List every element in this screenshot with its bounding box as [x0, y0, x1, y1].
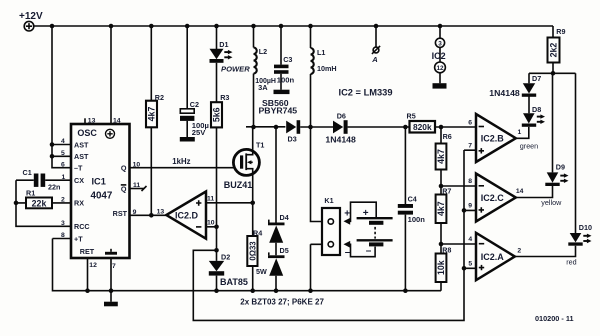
- svg-text:2: 2: [517, 248, 521, 255]
- svg-text:D6: D6: [337, 112, 346, 121]
- svg-text:D1: D1: [219, 40, 228, 49]
- svg-text:RST: RST: [113, 209, 128, 218]
- svg-text:+T: +T: [74, 234, 83, 243]
- svg-text:IC2 = LM339: IC2 = LM339: [339, 87, 393, 97]
- svg-text:yellow: yellow: [541, 198, 562, 207]
- svg-text:3: 3: [61, 220, 65, 227]
- svg-text:Q: Q: [121, 184, 127, 193]
- svg-text:D9: D9: [556, 163, 565, 172]
- svg-text:13: 13: [88, 117, 96, 124]
- svg-text:010200 - 11: 010200 - 11: [535, 314, 574, 323]
- svg-text:POWER: POWER: [221, 64, 250, 73]
- svg-text:R8: R8: [442, 246, 451, 255]
- svg-text:12: 12: [89, 262, 97, 269]
- svg-text:2: 2: [61, 197, 65, 204]
- svg-text:2x BZT03 27; P6KE 27: 2x BZT03 27; P6KE 27: [240, 298, 324, 307]
- svg-text:820k: 820k: [413, 122, 432, 132]
- svg-text:0Ω33: 0Ω33: [249, 241, 258, 261]
- svg-text:4047: 4047: [91, 191, 113, 202]
- svg-text:3: 3: [438, 40, 442, 47]
- svg-text:OSC: OSC: [77, 128, 97, 138]
- svg-text:R5: R5: [407, 111, 416, 120]
- svg-text:2k2: 2k2: [549, 43, 559, 58]
- svg-text:4: 4: [61, 138, 65, 145]
- svg-text:11: 11: [207, 196, 214, 203]
- svg-text:10mH: 10mH: [317, 64, 337, 73]
- svg-text:L1: L1: [317, 48, 325, 57]
- svg-text:C2: C2: [190, 100, 199, 109]
- svg-text:1N4148: 1N4148: [325, 135, 356, 145]
- svg-text:D5: D5: [280, 246, 289, 255]
- svg-text:IC2.A: IC2.A: [481, 252, 505, 262]
- svg-text:red: red: [566, 258, 576, 267]
- svg-text:IC2: IC2: [432, 51, 446, 61]
- svg-text:8: 8: [468, 178, 472, 185]
- svg-text:D3: D3: [288, 135, 297, 144]
- svg-text:Q: Q: [121, 164, 127, 173]
- svg-text:IC2.B: IC2.B: [481, 133, 505, 143]
- svg-text:5k6: 5k6: [212, 107, 222, 122]
- svg-text:IC2.C: IC2.C: [481, 193, 505, 203]
- svg-text:R9: R9: [556, 27, 565, 36]
- svg-text:8: 8: [61, 232, 65, 239]
- svg-text:11: 11: [133, 182, 140, 189]
- svg-text:T1: T1: [256, 141, 264, 150]
- svg-text:IC1: IC1: [92, 177, 106, 187]
- svg-text:RET: RET: [80, 247, 95, 256]
- svg-text:R4: R4: [253, 228, 262, 237]
- svg-text:C4: C4: [408, 195, 417, 204]
- svg-text:5W: 5W: [256, 267, 267, 276]
- svg-text:–: –: [345, 247, 351, 258]
- svg-text:D2: D2: [221, 253, 230, 262]
- svg-text:AST: AST: [74, 140, 89, 149]
- svg-text:14: 14: [113, 117, 121, 124]
- svg-text:AST: AST: [74, 152, 89, 161]
- svg-text:4: 4: [468, 236, 472, 243]
- svg-text:1: 1: [62, 174, 66, 181]
- svg-text:D8: D8: [532, 105, 541, 114]
- svg-text:D7: D7: [532, 74, 541, 83]
- svg-text:R1: R1: [26, 189, 35, 198]
- svg-text:10k: 10k: [436, 260, 446, 275]
- svg-text:9: 9: [133, 209, 137, 216]
- svg-text:100n: 100n: [408, 215, 426, 224]
- svg-text:CX: CX: [74, 176, 84, 185]
- svg-text:7: 7: [112, 263, 116, 270]
- svg-text:R2: R2: [155, 93, 164, 102]
- svg-text:C3: C3: [283, 55, 292, 64]
- svg-text:13: 13: [157, 208, 165, 215]
- svg-text:C1: C1: [23, 168, 32, 177]
- svg-text:K1: K1: [324, 196, 333, 205]
- svg-text:22k: 22k: [32, 198, 47, 208]
- svg-text:4k7: 4k7: [147, 107, 157, 122]
- svg-text:PBYR745: PBYR745: [259, 105, 298, 115]
- svg-text:green: green: [520, 141, 538, 150]
- svg-text:A: A: [371, 55, 377, 64]
- svg-text:7: 7: [468, 143, 472, 150]
- svg-text:1: 1: [518, 129, 522, 136]
- svg-text:5: 5: [468, 261, 472, 268]
- svg-text:RCC: RCC: [74, 222, 90, 231]
- svg-text:+: +: [344, 209, 350, 220]
- svg-text:100n: 100n: [277, 76, 295, 85]
- svg-text:5: 5: [61, 150, 65, 157]
- svg-text:6: 6: [468, 120, 472, 127]
- svg-text:1kHz: 1kHz: [172, 157, 190, 166]
- svg-text:L2: L2: [259, 47, 267, 56]
- svg-text:4k7: 4k7: [436, 201, 446, 216]
- svg-text:3A: 3A: [258, 83, 268, 92]
- svg-text:10: 10: [133, 161, 141, 168]
- svg-text:4k7: 4k7: [436, 149, 446, 164]
- svg-text:1N4148: 1N4148: [489, 88, 520, 98]
- svg-text:BUZ41: BUZ41: [224, 180, 253, 190]
- svg-text:–T: –T: [74, 164, 83, 173]
- svg-text:R7: R7: [442, 187, 451, 196]
- svg-text:9: 9: [468, 203, 472, 210]
- svg-text:–: –: [366, 246, 372, 257]
- svg-text:+: +: [363, 208, 369, 219]
- svg-text:D10: D10: [579, 223, 592, 232]
- svg-text:6: 6: [61, 161, 65, 168]
- svg-text:RX: RX: [74, 199, 84, 208]
- svg-text:10: 10: [207, 220, 215, 227]
- svg-text:12: 12: [436, 65, 444, 72]
- svg-text:14: 14: [516, 188, 524, 195]
- svg-text:22n: 22n: [48, 183, 60, 192]
- svg-text:25V: 25V: [192, 128, 206, 137]
- svg-text:IC2.D: IC2.D: [175, 211, 199, 221]
- svg-text:R6: R6: [443, 132, 452, 141]
- svg-text:D4: D4: [280, 213, 289, 222]
- svg-text:BAT85: BAT85: [220, 277, 248, 287]
- svg-text:+12V: +12V: [19, 11, 43, 22]
- svg-text:R3: R3: [220, 93, 229, 102]
